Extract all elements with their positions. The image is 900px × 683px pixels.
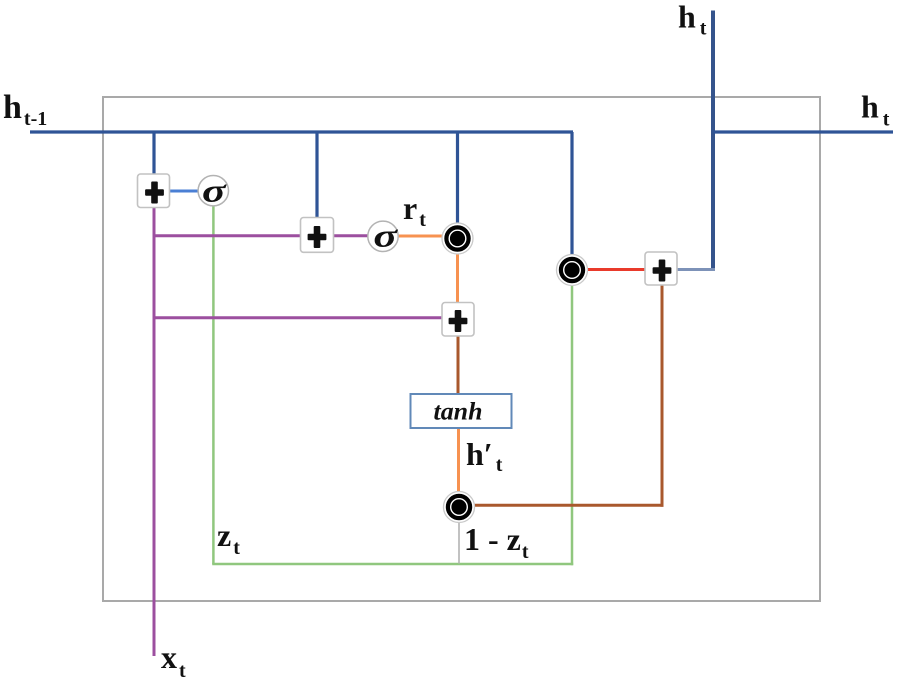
svg-text:zt: zt [217, 517, 240, 559]
svg-text:rt: rt [403, 190, 426, 231]
svg-text:ht: ht [861, 89, 890, 131]
svg-text:σ: σ [373, 218, 398, 255]
svg-text:ht-1: ht-1 [3, 89, 47, 130]
svg-text:σ: σ [202, 172, 227, 209]
svg-text:ht: ht [678, 0, 707, 40]
svg-text:1 - zt: 1 - zt [464, 521, 529, 563]
svg-text:xt: xt [161, 639, 186, 682]
svg-text:tanh: tanh [434, 396, 483, 425]
svg-text:h′t: h′t [466, 436, 503, 476]
